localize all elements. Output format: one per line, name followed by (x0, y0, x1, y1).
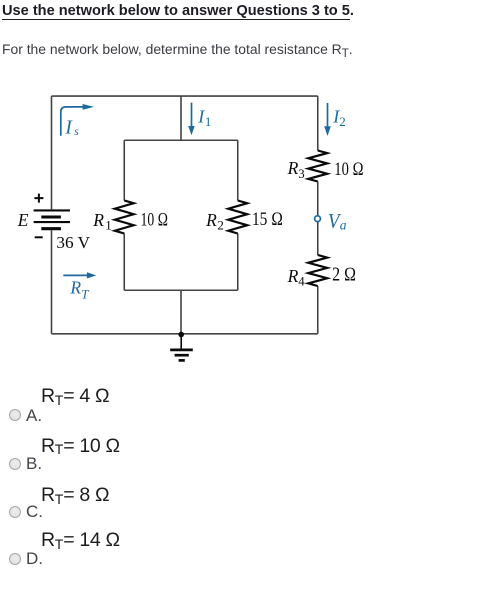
ground (170, 334, 193, 361)
option B (41, 435, 120, 458)
svg-text:T: T (81, 286, 89, 301)
resistor R3 (308, 151, 327, 182)
prompt (2, 41, 353, 57)
svg-text:36 V: 36 V (56, 233, 90, 252)
wire: inner box bottom (124, 289, 238, 291)
svg-text:R: R (205, 210, 217, 230)
resistor R4 (308, 255, 327, 286)
svg-text:2: 2 (217, 218, 224, 233)
wire: inner box left (gap for R1) (123, 140, 125, 290)
svg-text:s: s (74, 126, 79, 138)
option C (41, 484, 109, 507)
svg-text:1: 1 (105, 218, 112, 233)
arrow I1 (191, 103, 193, 127)
svg-text:1: 1 (205, 114, 212, 129)
svg-text:2 Ω: 2 Ω (332, 264, 356, 285)
battery plus sign (34, 194, 43, 203)
resistor R1 (115, 201, 134, 234)
arrow I2 (327, 103, 329, 127)
svg-text:4: 4 (298, 275, 305, 289)
wire: inner box right (gap for R2) (237, 140, 239, 290)
battery minus sign (35, 236, 43, 238)
option A (41, 385, 109, 408)
option D (41, 529, 120, 552)
resistor R2 (228, 201, 247, 234)
battery E plates (34, 210, 70, 228)
heading (2, 3, 354, 19)
svg-text:R: R (287, 266, 299, 286)
wire: bottom center tap (180, 290, 182, 334)
wire: top center tap (180, 96, 182, 140)
svg-text:R: R (92, 210, 104, 230)
svg-text:I: I (64, 118, 73, 139)
svg-text:10 Ω: 10 Ω (334, 159, 363, 180)
wire: outer right (gaps for R3, node Va, R4) (317, 96, 319, 334)
svg-text:3: 3 (298, 167, 304, 181)
svg-text:15 Ω: 15 Ω (252, 209, 283, 230)
wire: outer bottom (52, 333, 318, 335)
current source arrow Is (61, 107, 83, 136)
svg-text:R: R (69, 278, 81, 298)
arrow RT (63, 274, 87, 276)
svg-text:R: R (287, 158, 299, 178)
svg-text:10 Ω: 10 Ω (141, 210, 169, 231)
wire: inner box top (124, 139, 238, 141)
svg-text:2: 2 (339, 114, 346, 129)
svg-text:E: E (17, 210, 29, 230)
node Va (315, 216, 321, 222)
junction node dot (178, 332, 184, 338)
wire: outer left (gap for battery) (51, 96, 53, 334)
svg-text:a: a (340, 217, 347, 232)
wire: outer top (52, 95, 318, 97)
